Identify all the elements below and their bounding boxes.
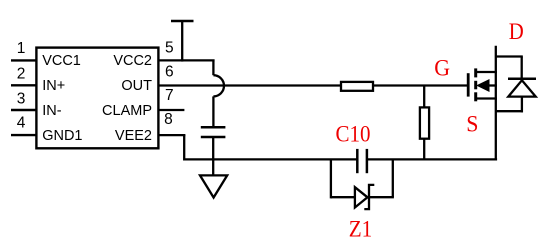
svg-text:S: S [466,112,478,137]
transistor Q1 body arrow [477,80,489,91]
wire bottom rail left segment (VEE2 net) [184,158,357,160]
wire zener branch right rise [392,159,394,197]
svg-text:IN+: IN+ [42,78,65,94]
transistor Q1 channel segment top [474,68,477,77]
svg-text:5: 5 [165,40,174,57]
wire drain-source vertical [495,46,497,161]
svg-text:Z1: Z1 [349,217,373,242]
transistor Q1 channel segment bottom [474,92,477,101]
wire diode anode lead [521,97,523,113]
svg-text:VEE2: VEE2 [115,128,152,144]
pin 1 stub [11,59,36,61]
zener diode Z1 cathode bar with hooks [364,185,374,209]
wire zener branch left drop [330,159,332,198]
svg-text:4: 4 [17,115,26,132]
capacitor decoupling bottom plate [201,136,226,139]
op-amp U1 (gate driver IC body) [36,48,158,149]
wire resistor to MOSFET gate [374,84,467,86]
wire zener row left [331,196,355,198]
wire pull-down resistor to rail [423,139,425,161]
svg-text:6: 6 [165,63,174,80]
VCC power bar [171,20,194,23]
wire capacitor bottom to rail [212,138,214,161]
wire pin 5 (VCC2) horizontal [158,59,214,61]
diode body cathode bar [508,78,536,81]
svg-text:1: 1 [17,40,26,57]
svg-text:IN-: IN- [42,103,62,119]
svg-text:G: G [434,56,450,81]
wire hop over OUT line [213,75,224,96]
wire diode bottom horizontal [496,110,523,112]
wire zener row right [369,196,394,198]
svg-text:VCC2: VCC2 [113,53,152,69]
pin 3 stub [11,109,36,111]
diode body triangle [508,80,535,96]
transistor Q1 drain horizontal [477,71,497,73]
wire pin 8 corner down to rail [183,135,185,160]
svg-text:C10: C10 [336,122,371,147]
wire junction gate to pull-down resistor [423,86,425,108]
capacitor decoupling top plate [201,126,226,129]
wire corner down to hop [212,60,214,75]
transistor Q1 channel segment middle [474,81,477,90]
capacitor C10 left plate [356,149,359,173]
resistor gate pull-down body [420,107,429,138]
wire OUT (pin 6) from IC to series resistor [158,84,341,86]
wire hop bottom to decoupling cap [212,96,214,126]
wire bottom rail right segment [367,158,497,160]
ground stem [212,159,214,175]
pin 4 stub [11,134,36,136]
svg-text:8: 8 [164,111,173,128]
transistor Q1 source horizontal [477,97,497,99]
wire pin 7 (CLAMP) stub [158,109,184,111]
svg-text:VCC1: VCC1 [42,53,81,69]
wire pin 8 (VEE2) horizontal [158,134,185,136]
wire diode cathode lead [521,57,523,79]
svg-text:GND1: GND1 [42,128,82,144]
svg-text:7: 7 [165,87,174,104]
svg-text:OUT: OUT [121,78,152,94]
wire diode top horizontal [496,55,523,57]
svg-text:CLAMP: CLAMP [102,103,152,119]
svg-text:2: 2 [17,65,26,82]
svg-text:D: D [509,19,524,44]
svg-text:3: 3 [17,91,26,108]
transistor Q1 body horizontal [489,84,497,86]
zener diode Z1 triangle [355,187,368,207]
pin 2 stub [11,84,36,86]
capacitor C10 right plate [366,149,369,173]
resistor series gate body [341,82,373,91]
ground symbol triangle [200,175,227,197]
wire VCC bar down to pin5 net [181,21,183,62]
transistor Q1 gate bar [467,73,470,96]
